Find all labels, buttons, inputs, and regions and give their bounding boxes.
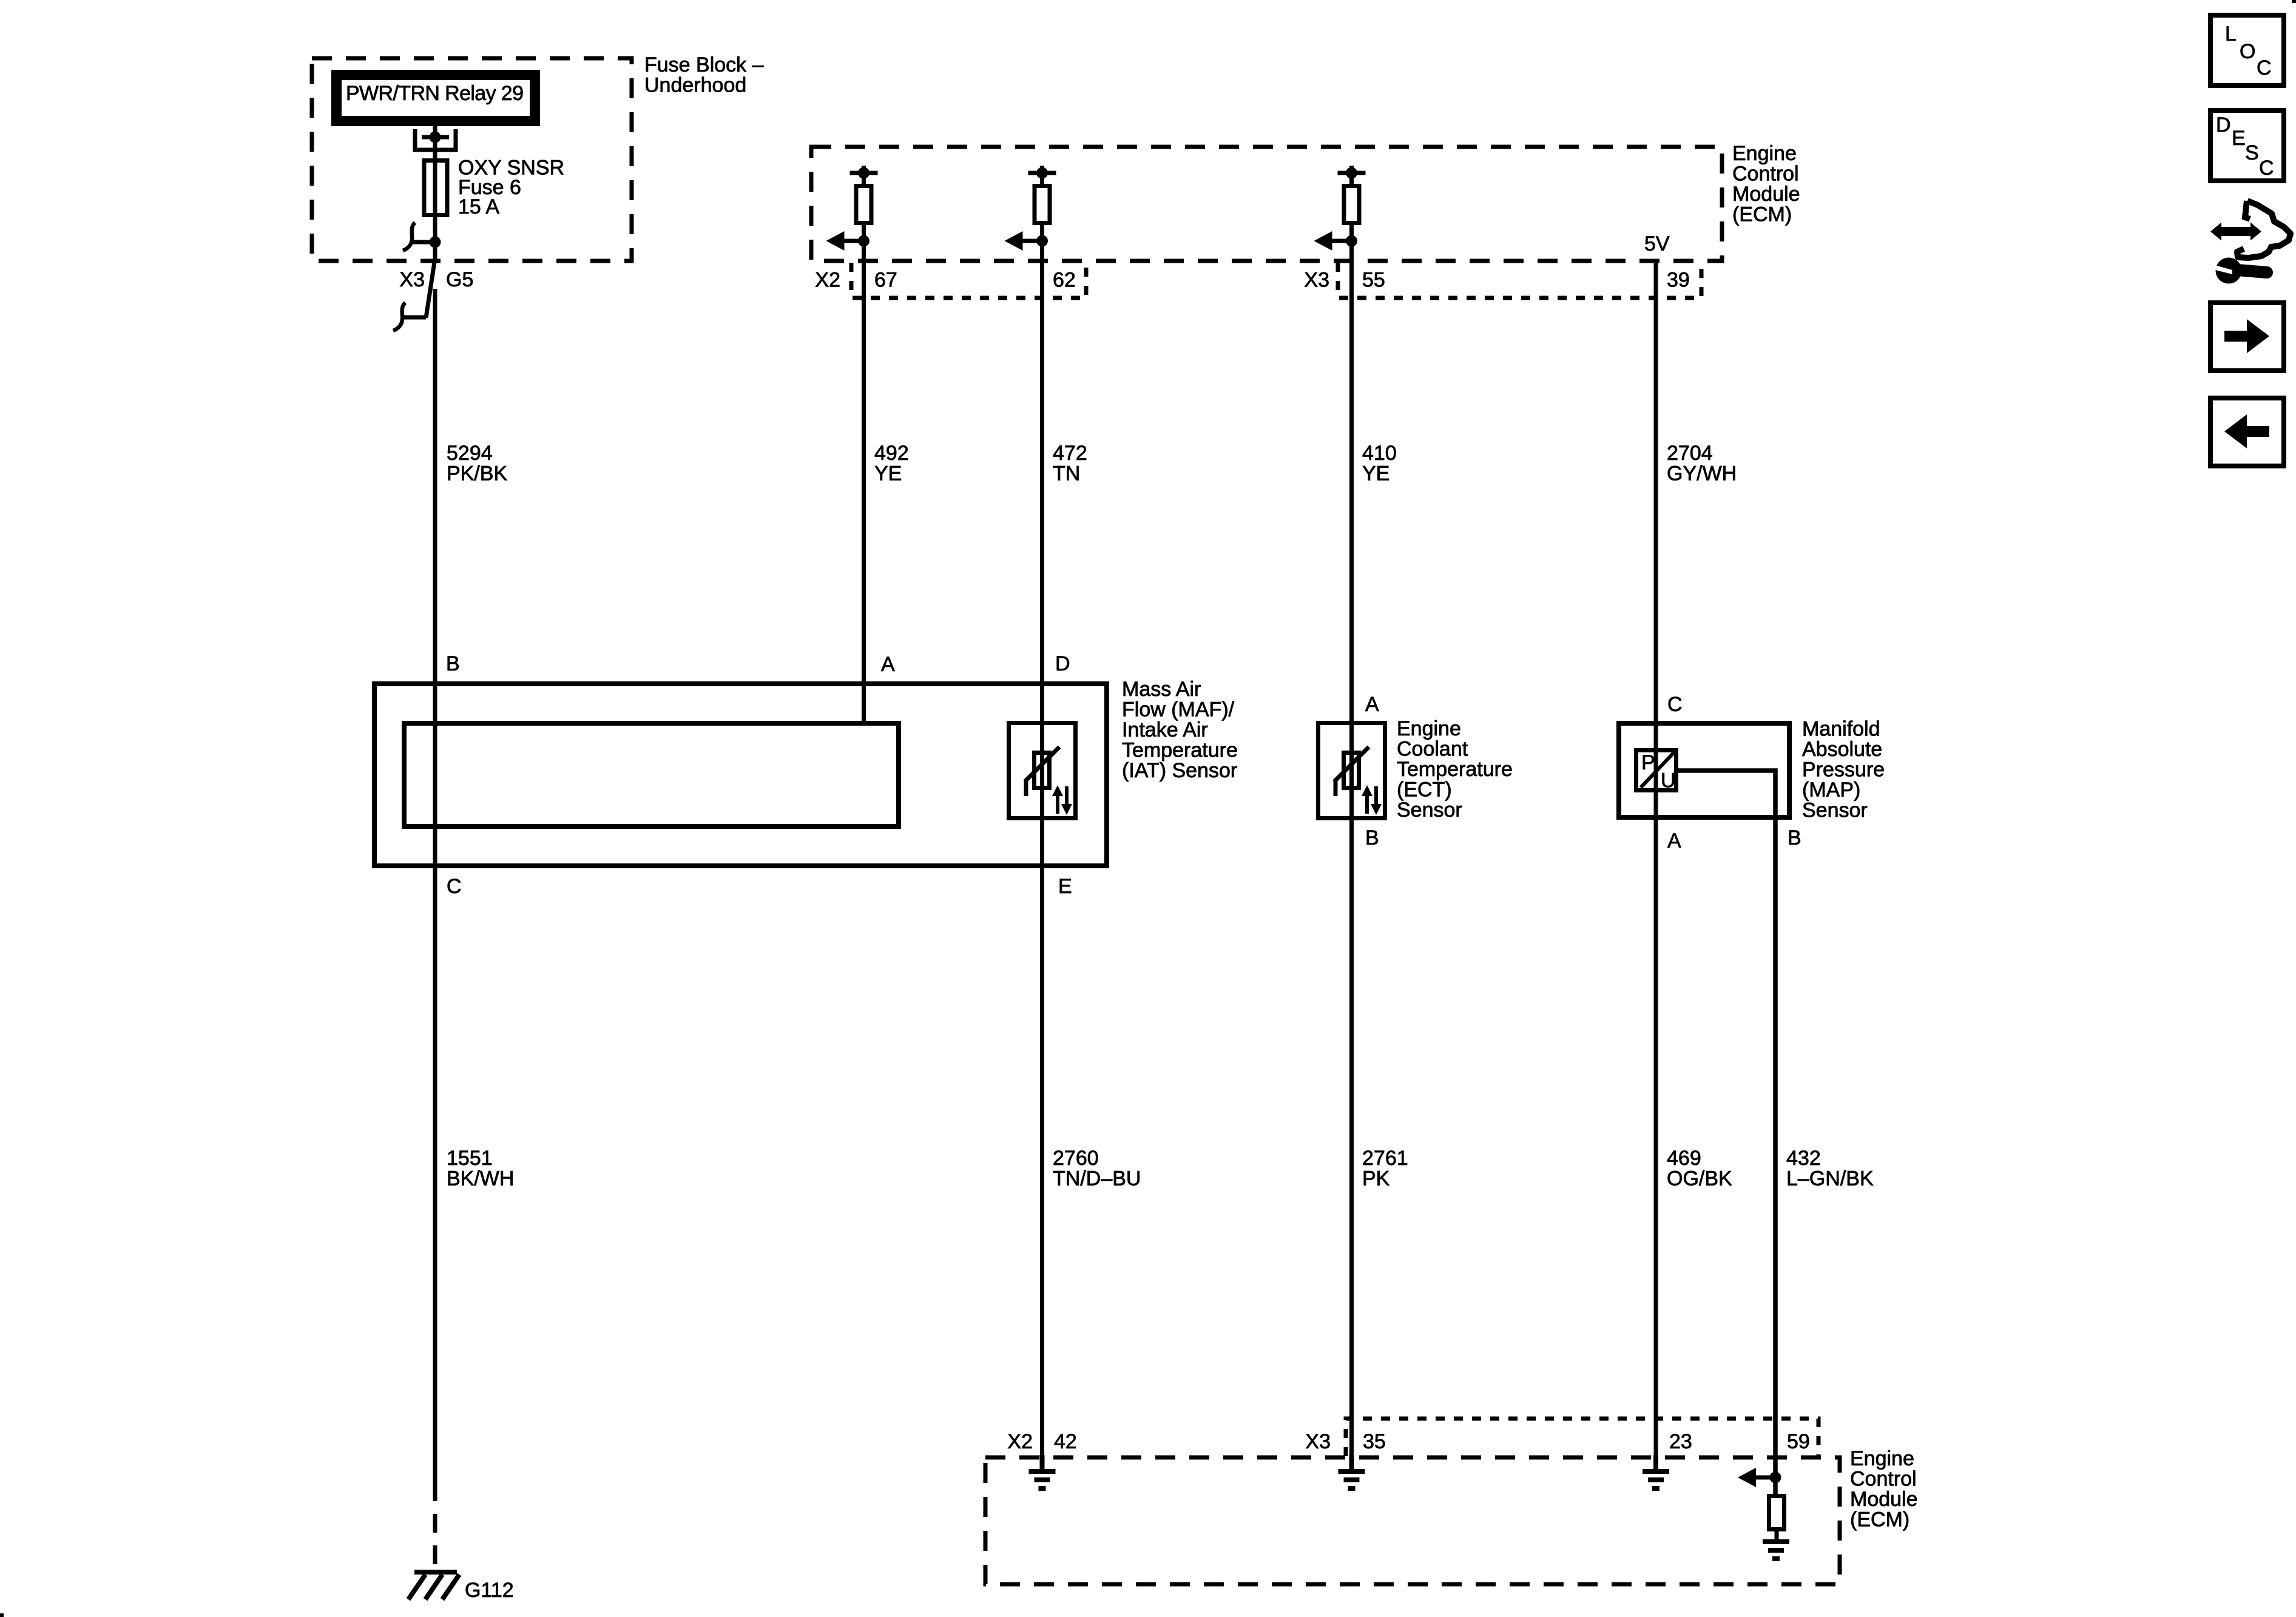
junction dot pin 62: [1036, 167, 1048, 179]
svg-text:X3: X3: [1304, 269, 1329, 292]
svg-text:42: 42: [1054, 1430, 1077, 1453]
svg-text:Absolute: Absolute: [1802, 738, 1882, 761]
svg-text:D: D: [2216, 113, 2231, 137]
svg-text:(MAP): (MAP): [1802, 778, 1860, 802]
IAT arrows: [1058, 786, 1067, 814]
svg-text:5294: 5294: [447, 442, 493, 465]
svg-text:Temperature: Temperature: [1397, 758, 1513, 781]
connector strip X3 bottom: [1346, 1419, 1818, 1456]
icon forward arrow box: [2210, 303, 2284, 371]
icon DESC box: [2210, 110, 2284, 181]
svg-text:E: E: [2232, 127, 2246, 150]
pin 59 pull resistor: [1769, 1496, 1784, 1530]
corner mark top right: [2292, 0, 2296, 3]
svg-text:Engine: Engine: [1850, 1447, 1914, 1470]
wire MAP PU to pin B and 432 L-GN/BK down to pin 59: [1678, 771, 1775, 1496]
svg-text:(ECM): (ECM): [1850, 1508, 1909, 1531]
svg-text:U: U: [1661, 769, 1676, 792]
svg-text:67: 67: [874, 269, 897, 292]
svg-text:55: 55: [1362, 269, 1385, 292]
relay PWR/TRN Relay 29 box: [337, 75, 535, 121]
svg-text:1551: 1551: [447, 1147, 493, 1170]
svg-text:C: C: [1667, 693, 1683, 716]
svg-text:L–GN/BK: L–GN/BK: [1786, 1167, 1874, 1190]
wire 5294 PK/BK to MAF pin B then 1551 BK/WH to G112: [433, 289, 437, 1501]
ECT thermistor diagonal: [1334, 747, 1369, 781]
svg-text:5V: 5V: [1644, 232, 1670, 255]
svg-text:2760: 2760: [1053, 1147, 1099, 1170]
svg-text:C: C: [2257, 56, 2272, 79]
svg-text:Flow (MAF)/: Flow (MAF)/: [1122, 698, 1235, 721]
icon hand double arrow: [2210, 201, 2291, 258]
icon back arrow box: [2210, 398, 2284, 466]
ECM resistor assembly pin 55: [1332, 166, 1366, 241]
inline connector clip hook: [393, 303, 405, 331]
svg-text:Sensor: Sensor: [1397, 798, 1462, 822]
junction dot relay terminal: [430, 132, 441, 143]
svg-text:Fuse Block –: Fuse Block –: [644, 53, 764, 76]
svg-text:Engine: Engine: [1397, 717, 1461, 740]
svg-text:A: A: [1365, 693, 1379, 716]
pin 59 arrow tap: [1755, 1476, 1775, 1480]
ground pin 59: [1763, 1542, 1789, 1559]
ground pin 23: [1643, 1455, 1669, 1488]
fuse F6 body: [424, 161, 447, 215]
svg-text:Module: Module: [1732, 183, 1800, 206]
arrowhead pin 67: [826, 231, 845, 251]
svg-text:2704: 2704: [1667, 442, 1713, 465]
svg-text:B: B: [446, 652, 460, 675]
junction dot splice: [430, 237, 441, 248]
junction dot pin 55: [1346, 167, 1357, 179]
svg-text:410: 410: [1362, 442, 1397, 465]
svg-text:432: 432: [1786, 1147, 1821, 1170]
MAP P/U transducer box: [1636, 751, 1676, 791]
IAT thermistor foot: [1024, 780, 1028, 796]
svg-text:D: D: [1055, 652, 1070, 675]
svg-text:E: E: [1058, 875, 1072, 898]
MAP P/U diagonal: [1641, 752, 1674, 788]
svg-text:492: 492: [874, 442, 909, 465]
svg-text:GY/WH: GY/WH: [1667, 462, 1737, 485]
svg-text:B: B: [1365, 826, 1379, 849]
svg-text:PK: PK: [1362, 1167, 1390, 1190]
svg-text:Module: Module: [1850, 1488, 1918, 1511]
svg-text:Intake Air: Intake Air: [1122, 718, 1208, 741]
svg-text:L: L: [2225, 22, 2237, 46]
arrowhead pin 59: [1738, 1468, 1756, 1487]
svg-text:39: 39: [1667, 269, 1690, 292]
svg-text:(IAT) Sensor: (IAT) Sensor: [1122, 759, 1237, 782]
svg-text:PWR/TRN Relay 29: PWR/TRN Relay 29: [346, 82, 524, 105]
ground G112 hatches: [408, 1575, 459, 1599]
junction dot pin 67: [858, 167, 869, 179]
icon LOC box: [2210, 15, 2284, 86]
svg-text:X3: X3: [1305, 1430, 1331, 1453]
svg-text:Mass Air: Mass Air: [1122, 678, 1201, 701]
MAF sensor outer box: [374, 684, 1107, 866]
svg-text:Control: Control: [1850, 1468, 1917, 1491]
svg-text:C: C: [2259, 157, 2274, 180]
ECT arrowheads: [1362, 785, 1373, 796]
svg-text:G5: G5: [446, 268, 473, 291]
wire 472 TN pin62 to MAF D and 2760 TN/D-BU to pin42: [1040, 241, 1044, 1471]
ECT thermistor resistor: [1344, 753, 1359, 788]
icon wrench: [2213, 258, 2267, 284]
svg-text:OG/BK: OG/BK: [1667, 1167, 1732, 1190]
wire 492 YE pin67 to MAF A: [862, 241, 866, 723]
ground G112 bar: [414, 1570, 457, 1575]
svg-text:35: 35: [1363, 1430, 1386, 1453]
arrowhead pin 55: [1314, 231, 1332, 251]
svg-text:PK/BK: PK/BK: [447, 462, 507, 485]
inline connector X3 slash: [426, 262, 434, 318]
MAP sensor outer box: [1619, 723, 1789, 817]
svg-text:O: O: [2240, 40, 2255, 63]
splice clip hook: [403, 223, 415, 251]
inline connector horizontal tap: [402, 316, 426, 320]
svg-text:(ECT): (ECT): [1397, 778, 1452, 802]
svg-text:G112: G112: [465, 1579, 514, 1602]
ECM top dashed box: [811, 147, 1722, 261]
svg-text:Temperature: Temperature: [1122, 739, 1238, 762]
svg-text:Pressure: Pressure: [1802, 758, 1885, 781]
ground pin 35: [1339, 1455, 1365, 1488]
wire dashed segment to G112: [433, 1514, 437, 1564]
arrowhead pin 62: [1005, 231, 1023, 251]
relay terminal connector cup: [415, 129, 456, 150]
svg-text:59: 59: [1787, 1430, 1810, 1453]
svg-text:469: 469: [1667, 1147, 1701, 1170]
svg-text:Sensor: Sensor: [1802, 799, 1868, 822]
splice horizontal tap: [411, 240, 435, 245]
ECM bottom dashed box: [985, 1457, 1840, 1584]
svg-text:BK/WH: BK/WH: [447, 1167, 514, 1190]
IAT thermistor cell box: [1009, 723, 1076, 819]
svg-text:TN/D–BU: TN/D–BU: [1053, 1167, 1141, 1190]
ECM resistor assembly pin 62: [1022, 166, 1056, 241]
relay terminal bar: [422, 135, 449, 140]
svg-text:X2: X2: [815, 269, 840, 292]
svg-text:2761: 2761: [1362, 1147, 1408, 1170]
connector strip X2 top: [851, 263, 1086, 298]
ECT thermistor foot: [1334, 780, 1338, 796]
ECM resistor assembly pin 67: [844, 166, 878, 241]
ECT arrows: [1367, 786, 1376, 814]
svg-text:C: C: [447, 875, 462, 898]
svg-text:Underhood: Underhood: [644, 74, 746, 97]
wire 2704 GY/WH 5V pin39 to MAP C and 469 OG/BK to pin23: [1654, 261, 1658, 1471]
IAT thermistor diagonal: [1025, 747, 1059, 781]
svg-text:A: A: [1667, 829, 1681, 852]
svg-text:Coolant: Coolant: [1397, 738, 1468, 761]
svg-text:23: 23: [1669, 1430, 1692, 1453]
svg-text:A: A: [881, 653, 895, 676]
ground pin 42: [1029, 1455, 1056, 1488]
svg-text:Control: Control: [1732, 163, 1799, 186]
MAF inner element box: [404, 723, 899, 826]
connector strip X3 top: [1338, 263, 1701, 298]
svg-text:X3: X3: [399, 268, 425, 291]
svg-text:YE: YE: [874, 462, 902, 485]
svg-text:P: P: [1641, 751, 1655, 774]
junction dot pin 59: [1770, 1472, 1781, 1484]
svg-text:(ECM): (ECM): [1732, 203, 1792, 226]
wire relay to fuse: [433, 126, 437, 262]
svg-text:S: S: [2245, 141, 2259, 164]
svg-text:Engine: Engine: [1732, 142, 1797, 165]
svg-text:X2: X2: [1007, 1430, 1033, 1453]
wire 410 YE pin55 to ECT A and 2761 PK to pin35: [1349, 241, 1354, 1471]
svg-text:Manifold: Manifold: [1802, 718, 1880, 741]
IAT arrowheads: [1052, 785, 1063, 796]
ECT sensor box: [1319, 723, 1385, 819]
svg-text:YE: YE: [1362, 462, 1389, 485]
wire resistor to ground: [1775, 1530, 1779, 1542]
svg-text:472: 472: [1053, 442, 1087, 465]
svg-text:62: 62: [1053, 269, 1076, 292]
svg-text:TN: TN: [1053, 462, 1080, 485]
fuse block underhood dashed box: [312, 58, 632, 261]
IAT thermistor resistor: [1035, 753, 1050, 788]
corner mark bottom left: [0, 1613, 4, 1617]
svg-text:15 A: 15 A: [458, 195, 499, 218]
svg-text:B: B: [1788, 826, 1801, 849]
